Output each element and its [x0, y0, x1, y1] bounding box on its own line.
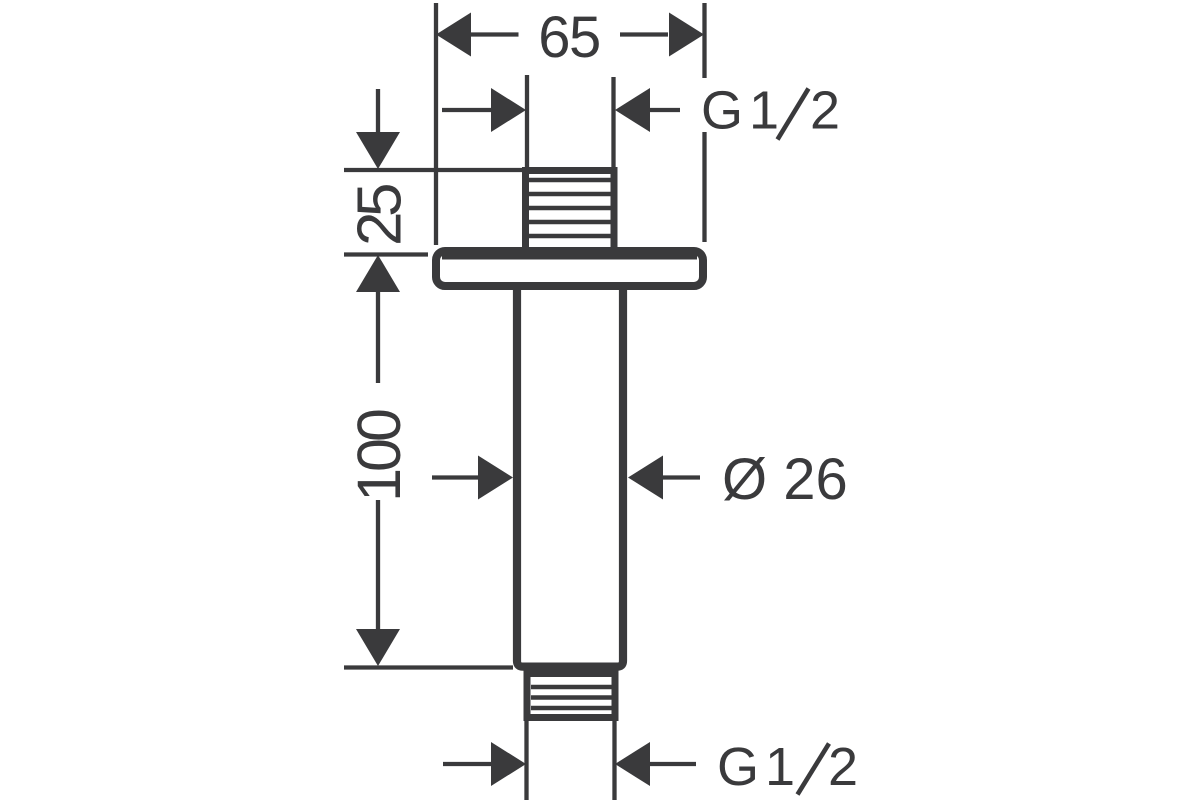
top threaded connector G1/2: [526, 171, 615, 251]
svg-text:Ø 26: Ø 26: [722, 447, 848, 512]
dim diameter 26 tail right: [663, 475, 700, 479]
arrowhead diameter 26 right: [628, 456, 663, 500]
svg-text:G1: G1: [717, 737, 801, 797]
svg-text:100: 100: [345, 410, 413, 502]
bottom thread line 2: [531, 695, 614, 699]
bottom thread line 3: [531, 706, 614, 710]
top thread line 2: [529, 192, 611, 196]
svg-text:G1: G1: [701, 81, 785, 141]
svg-text:25: 25: [346, 185, 415, 246]
bottom G1/2 dimension tail right: [650, 762, 696, 766]
dimension 65 line left segment: [466, 32, 519, 36]
wire: bottom G1/2 right extension line: [612, 719, 616, 800]
dim diameter 26 tail left: [432, 475, 480, 479]
arrowhead 100 pointing down: [356, 629, 400, 666]
top G1/2 dimension tail left: [442, 108, 492, 112]
arrowhead 25 pointing down: [356, 132, 400, 169]
top G1/2 dimension tail right: [650, 108, 680, 112]
top thread line 4: [529, 220, 611, 224]
label G1/2 bottom slash: [798, 744, 830, 795]
svg-text:2: 2: [810, 81, 846, 141]
svg-text:2: 2: [828, 737, 864, 797]
dimension 100 line lower segment: [376, 500, 380, 633]
arrowhead top G1/2 right: [615, 88, 650, 132]
flange inner lip line: [442, 255, 697, 260]
wire: top G1/2 right extension line: [611, 77, 615, 170]
label G1/2 top slash: [778, 89, 809, 140]
dimension 65 line right segment: [620, 32, 668, 36]
bottom thread line 1: [531, 685, 614, 689]
wire: dim 65 right extension line upper segment: [702, 3, 706, 78]
wire: dim 100 bottom extension line: [344, 665, 513, 669]
wire: dim 65 left extension line: [434, 3, 438, 245]
wire: dim 65 right extension line lower segment: [702, 132, 706, 242]
top thread line 3: [529, 206, 611, 210]
wire: top G1/2 left extension line: [525, 75, 529, 170]
wire: bottom G1/2 left extension line: [524, 719, 528, 800]
arrowhead bottom G1/2 right: [615, 742, 650, 786]
arrowhead diameter 26 left: [478, 456, 513, 500]
dim 25 upper lead line: [376, 89, 380, 136]
dimension 100 line upper segment: [376, 290, 380, 383]
wire: dim 25 lower extension line: [344, 252, 428, 256]
arrowhead 65 left: [436, 13, 471, 57]
arrowhead bottom G1/2 left: [491, 742, 526, 786]
ceiling flange (escutcheon plate): [436, 251, 703, 286]
arrowhead 100 pointing up (shared with 25): [356, 255, 400, 292]
svg-text:65: 65: [538, 5, 600, 70]
top thread line 1: [529, 178, 611, 182]
arrowhead 65 right: [669, 13, 704, 57]
top thread line 5: [529, 234, 611, 238]
bottom threaded connector G1/2: [527, 674, 615, 718]
wire: dim 25 upper extension line: [344, 168, 522, 172]
pipe body (shower arm tube, d=26): [517, 288, 623, 667]
bottom G1/2 dimension tail left: [443, 762, 492, 766]
arrowhead top G1/2 left: [491, 88, 526, 132]
